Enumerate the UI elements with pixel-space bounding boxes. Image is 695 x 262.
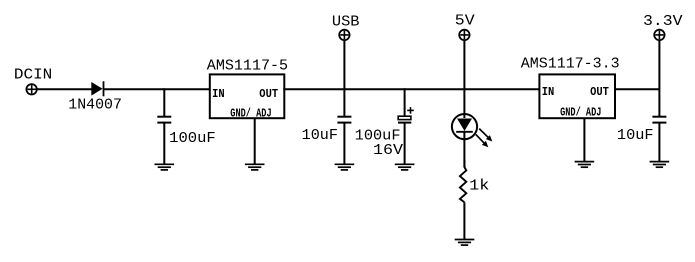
capacitor C4 10uF — [652, 117, 666, 123]
wire U1 OUT to U2 IN (5V bus) — [283, 88, 540, 90]
svg-text:OUT: OUT — [590, 86, 609, 99]
ground (under C4) — [650, 162, 670, 168]
node 5V — [459, 30, 469, 40]
node USB — [339, 30, 349, 40]
wire U2 OUT to 3.3V column — [614, 88, 659, 90]
LED light arrow 2 — [476, 134, 489, 147]
wire C2 to ground — [343, 123, 345, 165]
wire LED cathode to R1 — [463, 139, 465, 167]
regulator U2 AMS1117-3.3 — [539, 74, 615, 118]
wire bus tap down to C3 — [404, 88, 406, 116]
wire 3.3V down through bus to C4 — [658, 40, 660, 116]
svg-text:OUT: OUT — [259, 89, 278, 102]
wire C4 to ground — [658, 123, 660, 162]
svg-text:100uF: 100uF — [169, 131, 216, 147]
wire R1 to ground — [463, 202, 465, 239]
node 3.3V — [654, 30, 664, 40]
wire C1 to ground — [163, 123, 165, 165]
ground (under C1) — [155, 164, 175, 170]
wire USB down through bus to C2 — [343, 40, 345, 116]
ground (under U1) — [245, 164, 265, 170]
wire junction tap down to C1 — [163, 88, 165, 116]
svg-text:AMS1117-3.3: AMS1117-3.3 — [521, 56, 620, 72]
svg-text:10uF: 10uF — [302, 128, 338, 144]
svg-text:16V: 16V — [373, 143, 403, 159]
svg-text:GND/ ADJ: GND/ ADJ — [560, 106, 601, 120]
wire U1 GND/ADJ pin to ground — [254, 118, 256, 164]
wire DCIN to D1 anode — [37, 88, 92, 90]
ground (under R1) — [455, 240, 475, 246]
svg-text:AMS1117-5: AMS1117-5 — [207, 59, 288, 75]
svg-text:3.3V: 3.3V — [643, 14, 683, 30]
svg-text:5V: 5V — [455, 14, 475, 30]
svg-text:IN: IN — [542, 86, 555, 99]
svg-text:1N4007: 1N4007 — [68, 97, 122, 113]
svg-text:1k: 1k — [469, 179, 489, 195]
ground (under U2) — [575, 162, 595, 168]
svg-text:10uF: 10uF — [617, 128, 654, 144]
wire C3 to ground — [404, 123, 406, 165]
LED LED1 — [452, 114, 477, 139]
LED light arrow 1 — [479, 129, 492, 142]
ground (under C2) — [335, 164, 355, 170]
regulator U1 AMS1117-5 — [210, 74, 284, 118]
svg-text:DCIN: DCIN — [14, 68, 52, 84]
capacitor C2 10uF — [337, 117, 351, 123]
wire 5V down through bus to LED — [463, 40, 465, 118]
resistor R1 — [460, 160, 466, 202]
svg-text:GND/ ADJ: GND/ ADJ — [230, 107, 271, 121]
node DCIN — [26, 84, 36, 94]
wire U2 GND/ADJ pin to ground — [583, 118, 585, 161]
svg-text:IN: IN — [212, 89, 225, 102]
svg-text:USB: USB — [332, 14, 360, 30]
ground (under C3) — [395, 164, 415, 170]
wire D1 cathode to U1 IN — [104, 88, 211, 90]
diode D1 — [91, 81, 103, 96]
capacitor C3 100uF 16V polarized — [398, 107, 414, 123]
capacitor C1 100uF — [157, 117, 171, 123]
